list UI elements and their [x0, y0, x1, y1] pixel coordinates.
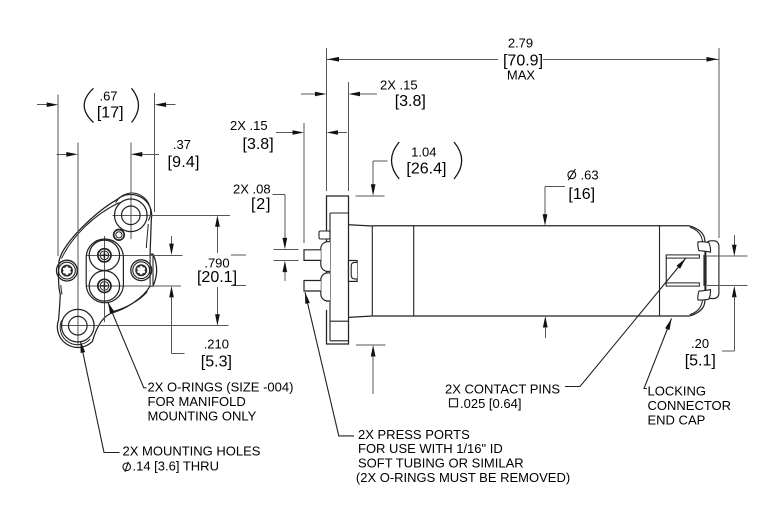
svg-text:2.79: 2.79 [508, 36, 533, 51]
svg-text:.14 [3.6] THRU: .14 [3.6] THRU [133, 459, 219, 474]
svg-text:MAX: MAX [507, 68, 536, 83]
svg-text:2X PRESS PORTS: 2X PRESS PORTS [358, 427, 470, 442]
svg-text:[26.4]: [26.4] [406, 160, 446, 177]
svg-text:2X .15: 2X .15 [230, 118, 268, 133]
svg-text:.37: .37 [173, 137, 191, 152]
svg-text:SOFT TUBING OR SIMILAR: SOFT TUBING OR SIMILAR [358, 456, 524, 471]
svg-text:2X .08: 2X .08 [233, 182, 271, 197]
svg-text:END CAP: END CAP [648, 412, 706, 427]
svg-text:FOR MANIFOLD: FOR MANIFOLD [148, 394, 246, 409]
svg-text:[5.3]: [5.3] [201, 354, 232, 371]
svg-text:CONNECTOR: CONNECTOR [648, 398, 732, 413]
svg-text:[3.8]: [3.8] [243, 136, 274, 153]
svg-text:[5.1]: [5.1] [685, 352, 716, 369]
svg-text:2X MOUNTING HOLES: 2X MOUNTING HOLES [123, 444, 261, 459]
svg-text:.67: .67 [99, 89, 117, 104]
svg-text:.20: .20 [691, 336, 709, 351]
svg-text:.63: .63 [581, 167, 599, 182]
svg-text:[20.1]: [20.1] [197, 269, 237, 286]
svg-text:2X O-RINGS (SIZE -004): 2X O-RINGS (SIZE -004) [148, 380, 294, 395]
svg-text:2X .15: 2X .15 [380, 78, 418, 93]
svg-text:[2]: [2] [251, 196, 271, 213]
svg-text:1.04: 1.04 [411, 145, 436, 160]
svg-text:(2X O-RINGS MUST BE REMOVED): (2X O-RINGS MUST BE REMOVED) [356, 470, 570, 485]
svg-text:.210: .210 [204, 336, 229, 351]
svg-text:.025 [0.64]: .025 [0.64] [460, 396, 521, 411]
svg-text:FOR USE WITH 1/16" ID: FOR USE WITH 1/16" ID [358, 441, 503, 456]
svg-text:[16]: [16] [568, 186, 595, 203]
svg-text:[3.8]: [3.8] [395, 93, 426, 110]
svg-text:2X CONTACT PINS: 2X CONTACT PINS [445, 381, 560, 396]
svg-text:[17]: [17] [97, 104, 124, 121]
svg-text:[9.4]: [9.4] [168, 154, 200, 171]
svg-text:LOCKING: LOCKING [648, 384, 707, 399]
svg-text:MOUNTING ONLY: MOUNTING ONLY [148, 408, 257, 423]
